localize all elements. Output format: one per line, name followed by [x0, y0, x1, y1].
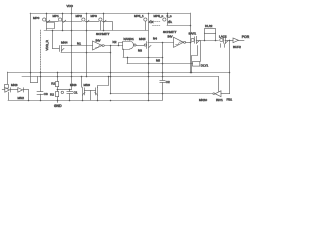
- svg-text:MN8: MN8: [70, 83, 77, 87]
- svg-text:N3: N3: [138, 49, 142, 53]
- wire schmitt2 out: [186, 42, 191, 44]
- wire N1 vertical: [71, 13, 73, 90]
- capacitor C2: [160, 80, 170, 100]
- wire MN4 gate drop: [52, 30, 54, 49]
- wire to schmitt2: [148, 42, 174, 44]
- svg-text:FB1: FB1: [227, 98, 233, 102]
- svg-text:DL/t2: DL/t2: [205, 24, 213, 28]
- svg-text:R2: R2: [50, 93, 54, 97]
- node GND: [54, 100, 62, 108]
- svg-text:NAND1: NAND1: [124, 37, 135, 41]
- inverter INV1: [213, 91, 230, 102]
- latch SAF1: [189, 31, 200, 43]
- schmitt inverter U1: [93, 41, 105, 50]
- svg-text:R1: R1: [51, 81, 55, 85]
- wire MN4 source row y52: [61, 52, 110, 54]
- transistor MN1: [2, 72, 18, 100]
- svg-text:MN2: MN2: [18, 96, 25, 100]
- schmitt inverter U1 label: [96, 32, 110, 42]
- node labels under INV1: [199, 98, 232, 102]
- svg-text:MP5_n: MP5_n: [154, 14, 164, 18]
- ground rail: [8, 100, 163, 102]
- wire C2 branch vertical: [162, 42, 164, 80]
- svg-text:VDD: VDD: [67, 4, 74, 8]
- svg-text:MP2: MP2: [76, 14, 83, 18]
- wire C3 net dashed: [40, 30, 42, 72]
- svg-text:MP3: MP3: [91, 14, 98, 18]
- wire MP5_n drain to right drop: [167, 25, 190, 27]
- svg-text:N2: N2: [113, 40, 117, 44]
- svg-text:C2: C2: [166, 80, 170, 84]
- wire MN1-MN2 link: [10, 89, 18, 91]
- svg-text:SCHMITT: SCHMITT: [163, 30, 177, 34]
- transistor MN4: [53, 41, 68, 52]
- nand gate U2: [123, 37, 145, 57]
- wire gate bias y30: [44, 30, 148, 32]
- wire SAF1 out row: [199, 40, 218, 42]
- svg-text:MN10: MN10: [199, 98, 207, 102]
- wire right rail drop: [190, 13, 192, 72]
- node N1: [77, 42, 81, 46]
- svg-text:MP1: MP1: [53, 14, 60, 18]
- node POR: [242, 35, 250, 39]
- capacitor C3: [37, 72, 48, 100]
- delay block DL: [205, 24, 216, 40]
- delay block DLY1: [127, 57, 209, 68]
- svg-text:GND: GND: [54, 104, 62, 108]
- transistor MN9: [84, 77, 109, 101]
- transistor MN8: [70, 77, 91, 101]
- wire y93.3: [111, 93, 213, 95]
- wire VDD stub: [71, 8, 73, 14]
- svg-text:INV1: INV1: [216, 98, 223, 102]
- wire left staircase: [31, 77, 38, 83]
- svg-text:POR: POR: [242, 35, 250, 39]
- wire inv top drop: [218, 77, 220, 92]
- wire MN common bulk stub: [90, 91, 92, 100]
- wire feedback y72: [7, 72, 229, 74]
- svg-text:DLY1: DLY1: [201, 64, 209, 68]
- svg-text:N4: N4: [153, 37, 157, 41]
- svg-text:MP5_1: MP5_1: [134, 14, 144, 18]
- node N5: [156, 59, 160, 63]
- wire R junction: [57, 89, 72, 91]
- svg-text:VDD_R: VDD_R: [45, 39, 49, 50]
- svg-text:MP0: MP0: [33, 16, 40, 20]
- svg-text:SCHMITT: SCHMITT: [96, 32, 110, 36]
- svg-text:C3: C3: [44, 92, 48, 96]
- latch LAT1: [219, 35, 233, 48]
- svg-text:MN5: MN5: [139, 37, 146, 41]
- buffer BUF2: [233, 38, 244, 49]
- transistor MN2: [18, 88, 29, 100]
- wire feedback vertical: [229, 40, 231, 94]
- node N3: [138, 49, 142, 53]
- node N4: [153, 37, 157, 41]
- node VDD: [67, 4, 74, 8]
- wire nand bottom row y57: [123, 57, 163, 59]
- node N2: [113, 40, 117, 44]
- wire SAF1 bottom staircase: [192, 41, 201, 73]
- schmitt inverter U3: [174, 37, 186, 47]
- resistor R2: [50, 92, 59, 101]
- svg-text:CX: CX: [149, 20, 153, 24]
- transistor MP5_1: [134, 13, 153, 41]
- svg-text:N1: N1: [77, 42, 81, 46]
- transistor MP3: [91, 13, 107, 30]
- junction dots: [28, 13, 231, 102]
- svg-text:MN6: MN6: [11, 83, 18, 87]
- transistor MN5: [139, 37, 151, 100]
- net label VDD_R rotated: [45, 39, 49, 50]
- svg-text:N5: N5: [156, 59, 160, 63]
- wire N1 to schmitt: [61, 45, 93, 47]
- wire schmitt out drop: [110, 46, 112, 94]
- capacitor C1: [61, 90, 78, 101]
- wire dashed repetition: [153, 22, 161, 26]
- wire gate bias segments y21.5: [46, 21, 59, 23]
- transistor MP1: [53, 13, 66, 30]
- resistor R1: [51, 72, 58, 91]
- transistor MP0: [33, 13, 55, 30]
- svg-text:C1: C1: [74, 90, 78, 94]
- wire nand upper input: [119, 43, 123, 46]
- wire y76.5: [22, 76, 219, 78]
- transistor MP5_n: [154, 13, 173, 25]
- svg-text:MN4: MN4: [61, 41, 68, 45]
- transistor MP2: [76, 13, 90, 77]
- svg-text:BUF2: BUF2: [233, 45, 241, 49]
- svg-text:SAF1: SAF1: [189, 31, 197, 35]
- schmitt inverter U3 label: [163, 30, 177, 39]
- wire schmitt out: [104, 45, 122, 47]
- wire top VDD rail: [30, 13, 190, 15]
- svg-text:MN9: MN9: [84, 83, 91, 87]
- wire left vertical: [30, 13, 32, 83]
